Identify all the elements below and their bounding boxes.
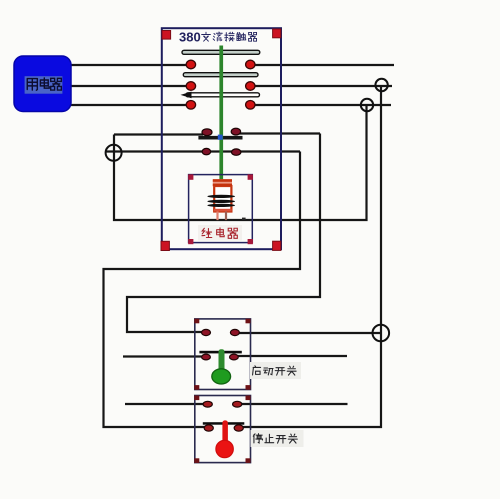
svg-text:380: 380 [179,30,201,45]
